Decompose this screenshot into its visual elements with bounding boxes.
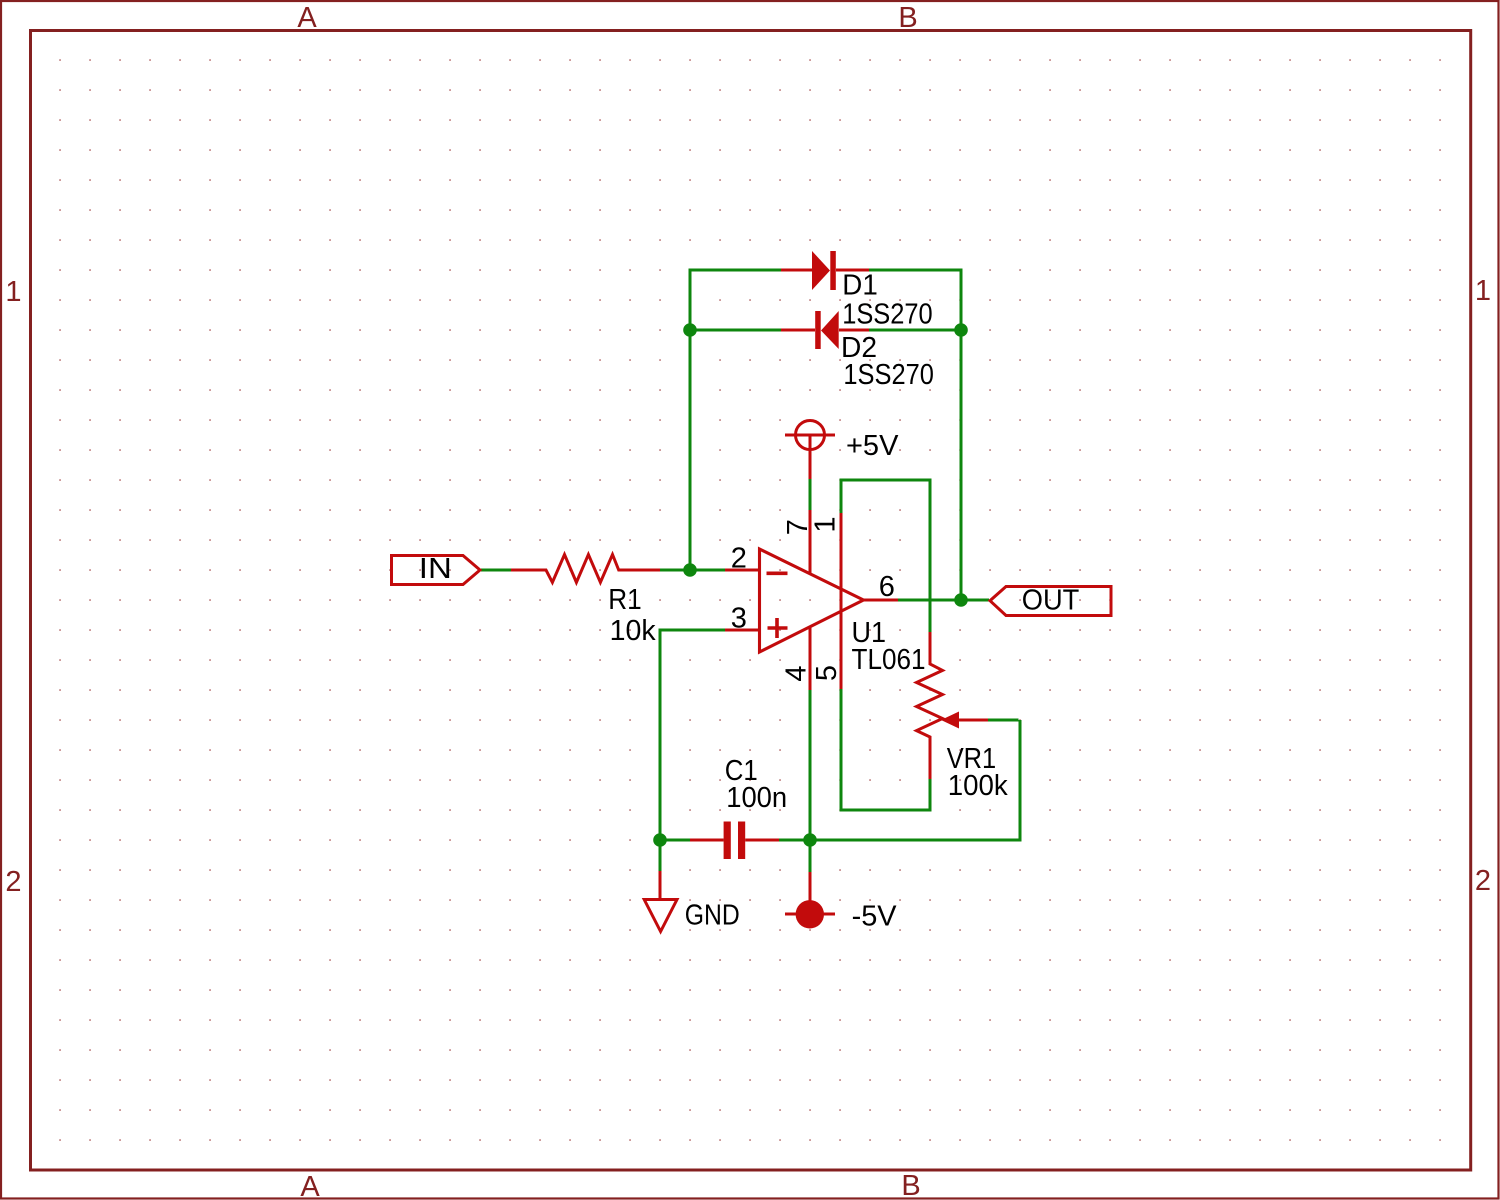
svg-text:1SS270: 1SS270 [843, 359, 934, 391]
junction dot at 690,570 [683, 563, 697, 577]
diode D2 triangle [821, 311, 839, 349]
junction dot at 961,600 [954, 593, 968, 607]
svg-text:100k: 100k [948, 770, 1008, 802]
svg-text:+5V: +5V [846, 430, 899, 462]
wire D1 right to right vertical down to OUT row [869, 270, 961, 600]
svg-text:GND: GND [685, 899, 740, 931]
svg-text:3: 3 [731, 603, 747, 635]
svg-text:A: A [297, 2, 317, 34]
svg-text:1: 1 [5, 276, 21, 308]
svg-text:1: 1 [1475, 275, 1491, 307]
svg-text:OUT: OUT [1022, 585, 1080, 617]
svg-text:2: 2 [5, 866, 21, 898]
wire pin4 down to C1 node and -5V [809, 690, 812, 872]
wire pin3 horizontal [662, 629, 726, 632]
diode D1 leads [781, 269, 869, 272]
op-amp U1 triangle [760, 549, 864, 652]
op-amp pin 7 [809, 510, 812, 574]
wire pin1 to VR1 top loop [840, 479, 931, 633]
junction dot at 961,330 [954, 323, 968, 337]
svg-text:B: B [898, 2, 917, 34]
junction dot at 690,330 [683, 323, 697, 337]
svg-text:A: A [300, 1171, 320, 1200]
potentiometer VR1 wiper arrow [941, 712, 959, 729]
svg-text:TL061: TL061 [852, 644, 926, 676]
svg-text:B: B [901, 1170, 920, 1200]
svg-text:-5V: -5V [852, 900, 898, 932]
svg-text:D1: D1 [842, 270, 878, 302]
resistor R1 [511, 555, 660, 583]
wire D2 row left [690, 329, 781, 332]
wire pin5 to VR1 bottom loop [840, 689, 931, 812]
op-amp pin 4 [809, 627, 812, 690]
capacitor C1 left plate [724, 822, 731, 860]
svg-text:IN: IN [419, 553, 452, 585]
capacitor C1 right plate [738, 822, 745, 860]
svg-text:100n: 100n [726, 782, 787, 814]
svg-text:5: 5 [811, 665, 843, 681]
op-amp pin 2 [725, 569, 760, 572]
svg-text:2: 2 [731, 543, 747, 575]
wire +5V to pin7 [809, 479, 812, 510]
wire output to OUT port [898, 599, 989, 602]
diode D2 leads [781, 329, 869, 332]
wire C1 right lead to node and wiper loop [779, 720, 1020, 842]
svg-text:6: 6 [879, 571, 895, 603]
wire C1 left node stub [660, 839, 690, 842]
diode D1 cathode bar [830, 251, 836, 290]
wire pin3 vertical down to C1 left node and GND [659, 629, 662, 872]
svg-text:10k: 10k [610, 615, 656, 647]
op-amp plus mark [768, 618, 788, 638]
op-amp pin 1 and pin 5 [840, 513, 843, 689]
junction dot at 810,840 [803, 833, 817, 847]
svg-text:1SS270: 1SS270 [842, 298, 933, 330]
capacitor C1 leads [690, 839, 779, 842]
svg-text:R1: R1 [608, 584, 642, 616]
supply -5V symbol [809, 872, 812, 901]
op-amp pin 6 output [864, 599, 898, 602]
diode D2 cathode bar [815, 311, 821, 349]
wire D2 right [869, 329, 961, 332]
potentiometer VR1 wiper lead [959, 719, 988, 722]
wire R1 right lead to pin2 [660, 569, 725, 572]
svg-text:2: 2 [1475, 865, 1491, 897]
potentiometer VR1 resistor body [917, 632, 943, 779]
diode D1 triangle [812, 251, 830, 290]
junction dot at 660,840 [653, 833, 667, 847]
svg-text:4: 4 [781, 665, 813, 681]
wire net N$1 green segments (IN to pin2 and diode loop) [481, 270, 1020, 872]
port OUT [990, 587, 1111, 616]
wire left vertical riser to diode rows [690, 270, 781, 572]
wire IN port to R1 lead [481, 569, 511, 572]
supply +5V symbol [785, 421, 835, 480]
ground GND symbol [659, 871, 662, 900]
port IN [392, 556, 481, 585]
svg-text:1: 1 [810, 516, 842, 532]
op-amp minus mark [767, 571, 788, 575]
op-amp pin 3 [725, 629, 760, 632]
